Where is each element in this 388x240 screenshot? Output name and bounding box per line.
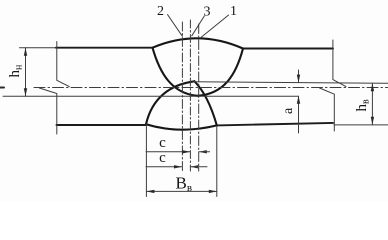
break line left upper stroke (57, 42, 70, 87)
dimension c row1 line (146, 151, 190, 153)
break line right upper stroke (333, 40, 346, 87)
dimension h_n vertical line (25, 48, 27, 97)
dimension h_n top arrow (24, 48, 27, 56)
svg-text:c: c (159, 150, 166, 166)
horizontal centerline (dash-dot) (34, 86, 388, 88)
dimension h_n bottom arrow (24, 88, 27, 96)
lower weld cap (root bulge) (146, 124, 217, 129)
dimension a lower tail (298, 96, 300, 133)
svg-text:hв: hв (354, 99, 372, 112)
plate top surface left segment (20, 47, 58, 49)
leader line for label 3 (192, 16, 205, 36)
extension line at lower weld peak level y=82 (193, 82, 388, 84)
dimension c row2 left-pointing arrow at axis2 with tail (190, 165, 198, 168)
lower weld fusion boundary left (146, 81, 195, 124)
B_v right arrow (209, 190, 217, 193)
svg-text:2: 2 (157, 4, 164, 19)
B_v extension line left (145, 124, 147, 196)
break line left lower stroke (39, 88, 56, 134)
weld axis 1 (outer weld axis, dash-dot) (181, 22, 183, 171)
leader line for label 2 (168, 15, 183, 37)
leader line for label 1 (200, 15, 228, 38)
extension of bottom surface right of break (334, 124, 388, 126)
svg-text:3: 3 (204, 5, 211, 20)
plate top surface right segment (243, 48, 333, 50)
break line right lower stroke (320, 88, 335, 131)
dimension a upper arrow (points down) (297, 75, 300, 83)
dimension h_v vertical line (371, 83, 373, 125)
svg-text:1: 1 (230, 4, 237, 19)
lower weld fusion boundary right (195, 81, 217, 125)
svg-text:c: c (159, 135, 166, 151)
dimension c row1 right-pointing arrow at axis2 (182, 150, 190, 153)
dimension h_v bottom arrow (371, 117, 374, 125)
dimension c row1 left-pointing arrow at axis3 with tail (199, 150, 207, 153)
dimension h_v top arrow (371, 83, 374, 91)
upper weld fusion boundary right (198, 49, 244, 96)
upper weld fusion boundary left (153, 48, 198, 96)
upper weld cap (reinforcement) (153, 38, 244, 48)
left edge mark (0, 87, 4, 89)
plate bottom surface left segment (57, 124, 147, 126)
weld axis 3 (inner weld axis, dash-dot) (198, 24, 200, 171)
B_v dimension line (146, 190, 216, 192)
dimension c row2 line (146, 166, 182, 168)
weld axis 2 (joint centerline, dash-dot) (189, 20, 191, 171)
svg-text:a: a (281, 107, 296, 114)
B_v left arrow (146, 190, 154, 193)
B_v extension line right (216, 126, 218, 197)
dimension a lower arrow (points up) (297, 96, 300, 104)
svg-text:Bв: Bв (176, 174, 193, 195)
dimension a upper tail (298, 70, 300, 82)
extension line at upper weld root level y=96 (3, 95, 299, 97)
plate bottom surface right segment (217, 123, 333, 126)
dimension c row2 right-pointing arrow at axis1 (174, 165, 182, 168)
svg-text:hн: hн (7, 64, 25, 78)
